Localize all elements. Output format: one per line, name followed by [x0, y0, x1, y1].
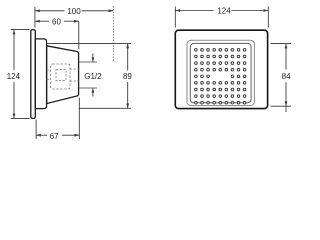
dim 89: dimension line	[127, 44, 129, 109]
dim 84: extension lines	[271, 44, 292, 107]
dim 124 top: arrowheads	[175, 9, 268, 12]
dim 124 top: extension lines	[175, 7, 268, 28]
dim 100: shared left extension line	[34, 7, 36, 28]
dim 89: arrowheads	[126, 44, 129, 109]
dim 124 left: dimension line	[13, 30, 15, 119]
dim 60: dimension line	[35, 20, 79, 22]
svg-text:124: 124	[217, 6, 231, 15]
escutcheon flange plate (edge view)	[31, 30, 36, 119]
hidden waterway inner square (dashed)	[56, 70, 66, 81]
dim G1/2: arrowheads	[92, 57, 95, 92]
hidden waterway outer (dashed)	[51, 64, 71, 89]
dim 124 top: dimension line	[175, 10, 268, 12]
tapered body (side outline)	[47, 46, 79, 104]
dim 67: extension lines	[36, 98, 79, 140]
dim 84: dimension line	[285, 44, 287, 112]
dim 60: right extension line down to body back corner	[78, 21, 80, 49]
dim 124 left: extension lines	[11, 30, 30, 119]
G1/2 inlet boss tick bottom	[79, 87, 97, 89]
recessed panel outer line	[187, 40, 254, 105]
svg-text:89: 89	[123, 72, 132, 81]
dim 89: extension lines	[48, 44, 132, 109]
svg-text:60: 60	[52, 18, 61, 27]
svg-text:124: 124	[7, 72, 21, 81]
supply centreline (dashed)	[112, 6, 114, 62]
nozzle dot grid 9x9, centre 3 of middle row omitted	[195, 49, 246, 104]
G1/2 inlet boss tick top	[79, 61, 97, 63]
outer square plate	[175, 30, 267, 108]
dim 124 left: arrowheads	[13, 30, 16, 119]
svg-text:84: 84	[282, 72, 291, 81]
dim 84: arrowheads	[285, 44, 288, 107]
dim 100: dimension line	[35, 10, 113, 12]
mounting block step	[35, 39, 46, 109]
svg-text:67: 67	[50, 132, 59, 141]
dim 67: dimension line	[36, 134, 79, 136]
dim 67: arrowheads	[36, 134, 79, 137]
recessed panel inner line	[190, 43, 251, 102]
dim 100: arrowheads	[35, 9, 113, 12]
hidden connector dashes right	[70, 69, 79, 81]
dim G1/2: arrow shafts	[92, 54, 94, 97]
dim 60: arrowheads	[35, 20, 79, 23]
svg-text:100: 100	[67, 7, 81, 16]
hidden connector dashes left	[47, 70, 51, 80]
svg-text:G1/2: G1/2	[84, 72, 102, 81]
